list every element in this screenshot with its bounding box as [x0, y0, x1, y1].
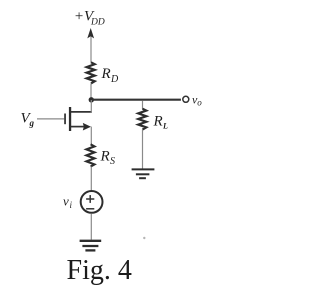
svg-text:i: i	[70, 200, 73, 210]
svg-text:o: o	[197, 97, 202, 107]
resistor RD	[87, 62, 95, 83]
svg-text:g: g	[29, 118, 35, 128]
node VG label	[21, 111, 35, 129]
value label RL	[153, 114, 169, 131]
wire node to RL	[142, 101, 144, 109]
node drain junction	[89, 97, 94, 102]
node vi label	[63, 194, 73, 210]
svg-text:R: R	[101, 66, 111, 82]
wire source vertical	[90, 127, 92, 145]
svg-text:Fig. 4: Fig. 4	[67, 255, 132, 286]
wire drain horizontal	[71, 111, 92, 113]
source vi plus sign	[86, 195, 94, 203]
value label RD	[101, 66, 120, 85]
wire RL to ground	[142, 130, 144, 169]
terminal vo	[183, 96, 189, 102]
transistor Q1 gate bar	[64, 114, 66, 125]
resistor RS	[87, 144, 95, 166]
wire VDD arrow lead	[90, 36, 92, 63]
transistor Q1 channel bar	[69, 107, 71, 131]
svg-text:S: S	[110, 156, 115, 167]
ground RL	[132, 169, 155, 178]
power arrow VDD	[87, 28, 94, 38]
transistor Q1 source arrow	[83, 123, 91, 131]
value label RS	[100, 149, 116, 168]
wire RS to source vi	[90, 167, 92, 191]
source vi circle	[81, 191, 103, 213]
node vo label	[192, 92, 202, 107]
wire drain vertical	[90, 100, 92, 113]
node VDD label	[74, 9, 105, 28]
wire RD to node	[90, 83, 92, 100]
resistor RL	[138, 109, 146, 130]
svg-text:L: L	[162, 122, 168, 131]
wire gate lead	[37, 118, 64, 120]
wire vi to ground	[90, 214, 92, 240]
svg-text:R: R	[100, 149, 110, 165]
svg-text:R: R	[153, 114, 163, 130]
svg-text:v: v	[63, 194, 69, 209]
wire source horizontal	[71, 126, 85, 128]
source vi minus sign	[86, 208, 94, 210]
ground main	[80, 241, 102, 251]
speck artifact	[143, 237, 145, 239]
svg-text:D: D	[110, 74, 119, 85]
wire output	[91, 99, 181, 101]
svg-text:DD: DD	[90, 17, 105, 27]
